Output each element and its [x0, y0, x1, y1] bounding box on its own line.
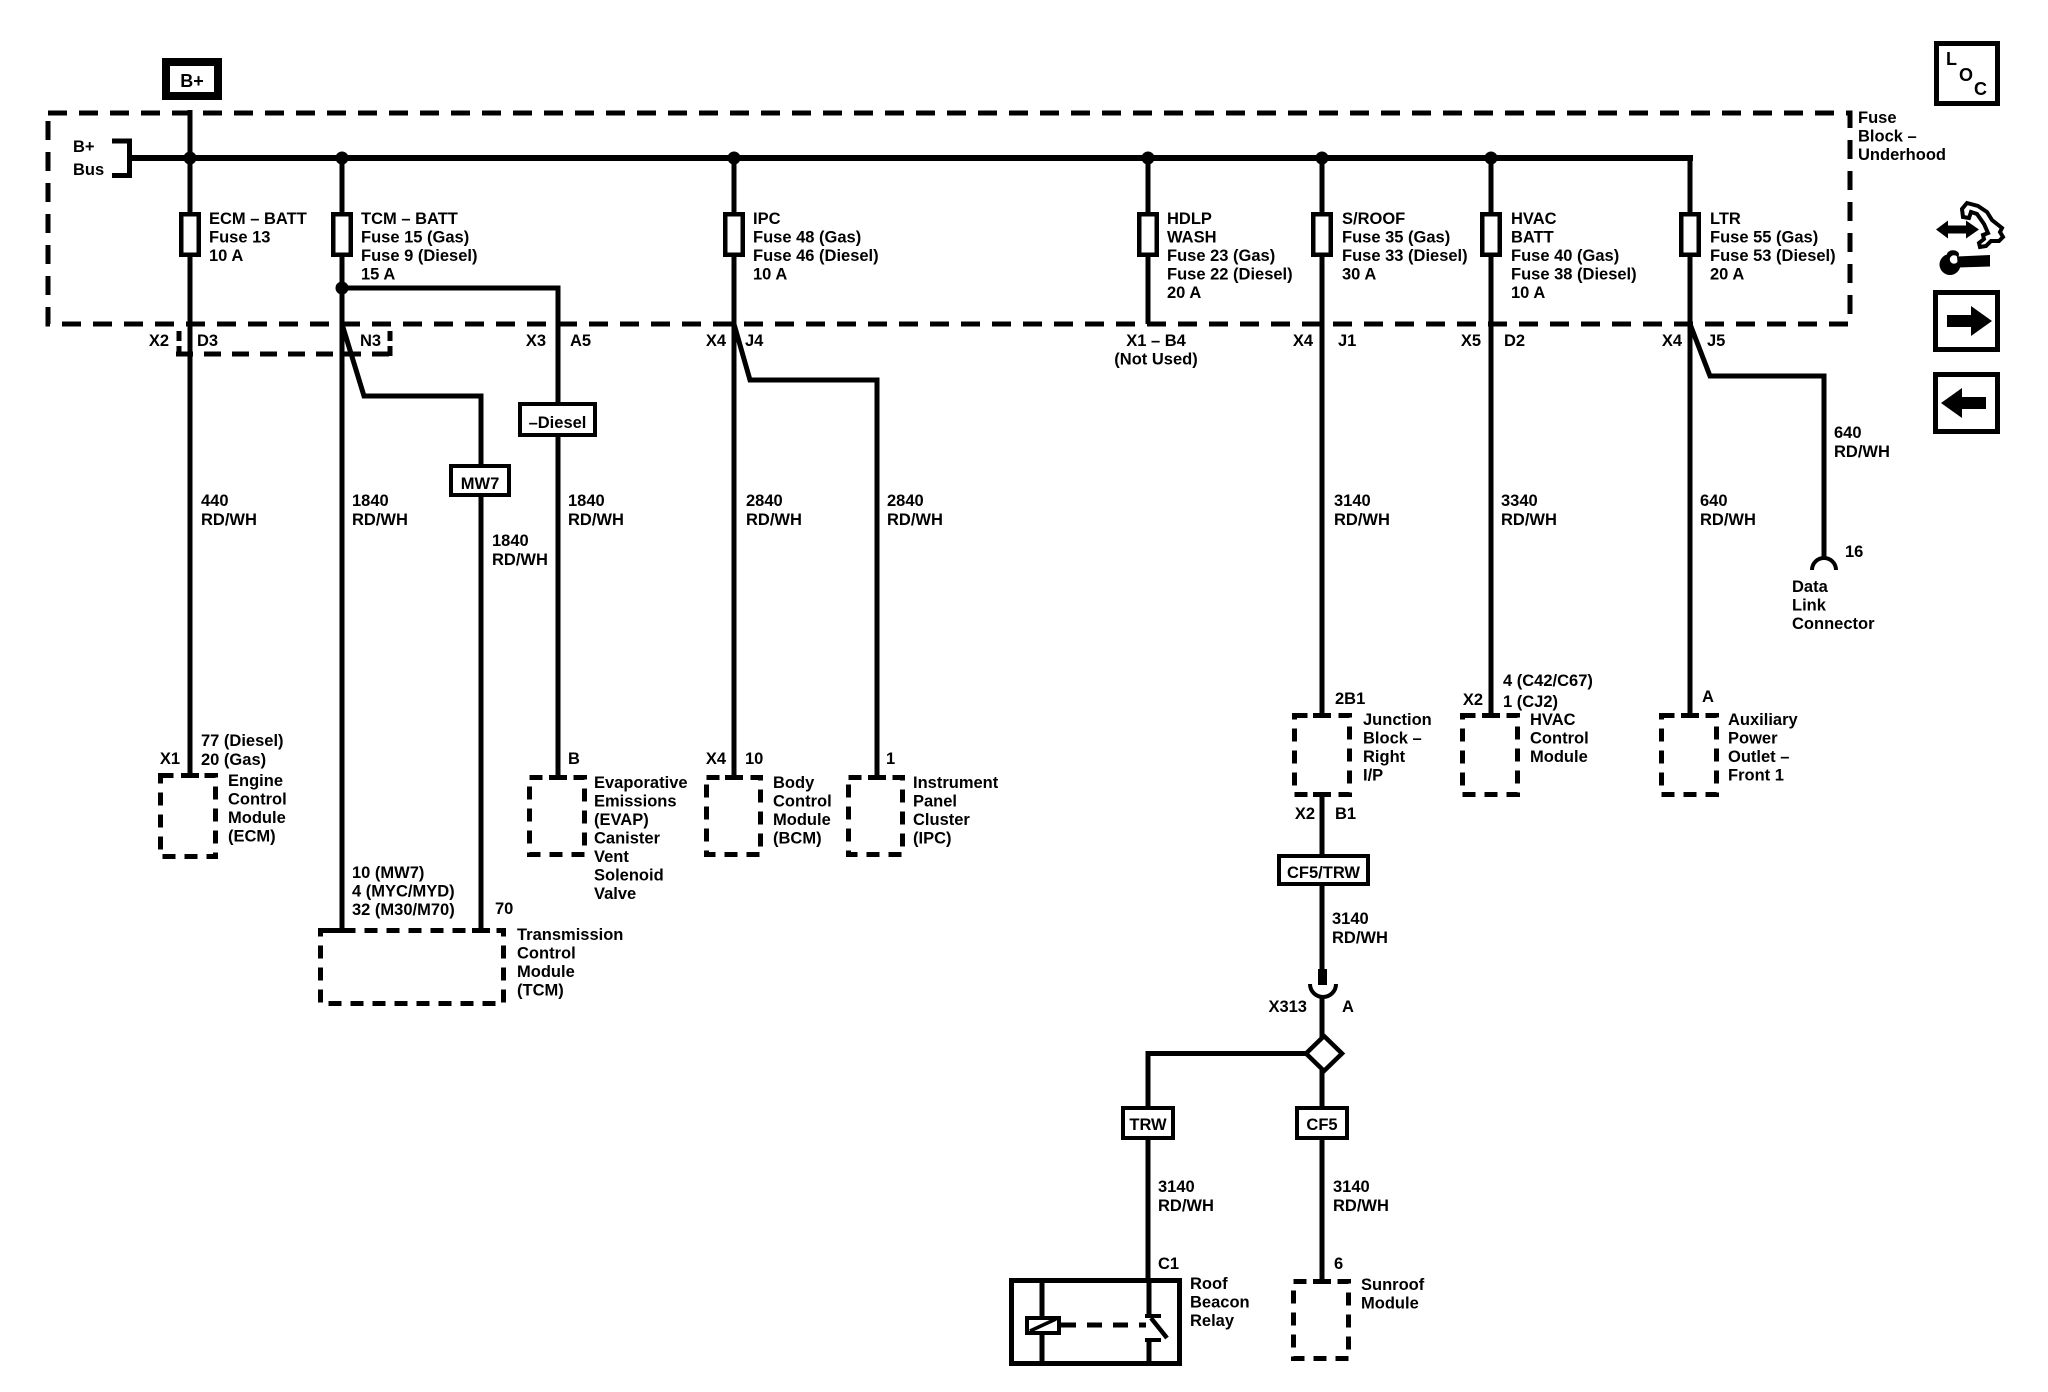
option box CF5/TRW	[1279, 856, 1368, 884]
junction node on bus at ECM feed	[184, 152, 197, 165]
B+ Bus bracket	[112, 141, 130, 176]
wire B+ feed drop	[188, 110, 193, 158]
wire X313 to splice	[1320, 997, 1325, 1038]
svg-text:(ECM): (ECM)	[228, 828, 276, 846]
wire label 640 RD/WH	[1700, 492, 1756, 529]
relay box Roof Beacon Relay	[1012, 1281, 1180, 1364]
svg-text:Evaporative: Evaporative	[594, 774, 688, 792]
svg-text:Outlet –: Outlet –	[1728, 748, 1789, 766]
svg-text:Fuse 40 (Gas): Fuse 40 (Gas)	[1511, 247, 1619, 265]
svg-text:RD/WH: RD/WH	[887, 511, 943, 529]
svg-text:Fuse 55 (Gas): Fuse 55 (Gas)	[1710, 229, 1818, 247]
svg-text:10 A: 10 A	[1511, 284, 1545, 302]
splice diamond	[1306, 1036, 1342, 1071]
relay mechanical link dashed	[1061, 1323, 1146, 1328]
svg-text:32 (M30/M70): 32 (M30/M70)	[352, 901, 455, 919]
wire label 3140 RD/WH trw	[1158, 1178, 1214, 1215]
svg-text:1840: 1840	[492, 532, 529, 550]
nav box arrow right	[1936, 293, 1998, 350]
relay switch wire lower	[1147, 1340, 1152, 1364]
svg-text:16: 16	[1845, 543, 1863, 561]
fuse LTR Fuse 55/53 20A	[1681, 214, 1699, 255]
wire label 2840 RD/WH	[887, 492, 943, 529]
svg-text:CF5: CF5	[1306, 1116, 1337, 1134]
svg-text:Fuse 53 (Diesel): Fuse 53 (Diesel)	[1710, 247, 1836, 265]
svg-text:Emissions: Emissions	[594, 793, 677, 811]
svg-text:Fuse 13: Fuse 13	[209, 229, 270, 247]
svg-text:X3: X3	[526, 332, 546, 350]
svg-text:Fuse 46 (Diesel): Fuse 46 (Diesel)	[753, 247, 879, 265]
svg-text:B: B	[568, 750, 580, 768]
svg-text:Control: Control	[517, 945, 576, 963]
junction node on bus at S/ROOF feed	[1316, 152, 1329, 165]
svg-text:RD/WH: RD/WH	[1501, 511, 1557, 529]
fuse block underhood dashed border	[48, 113, 1850, 324]
svg-text:LTR: LTR	[1710, 210, 1741, 228]
svg-text:20 A: 20 A	[1710, 266, 1744, 284]
svg-text:B+: B+	[73, 138, 95, 156]
wire label 1840 RD/WH	[352, 492, 408, 529]
wire IPC feed 2840 RD/WH to BCM	[732, 158, 737, 778]
wire branch diagonal to IPC cluster	[734, 324, 877, 778]
label IPC	[913, 774, 999, 848]
svg-text:RD/WH: RD/WH	[746, 511, 802, 529]
svg-text:RD/WH: RD/WH	[1158, 1197, 1214, 1215]
svg-text:Block –: Block –	[1858, 128, 1917, 146]
svg-text:Link: Link	[1792, 597, 1827, 615]
svg-text:I/P: I/P	[1363, 767, 1383, 785]
label fuse HDLP WASH Fuse 23/22 20A	[1167, 210, 1293, 302]
wire label 440 RD/WH	[201, 492, 257, 529]
svg-text:RD/WH: RD/WH	[201, 511, 257, 529]
svg-text:Module: Module	[517, 963, 575, 981]
wire S/ROOF feed 3140 RD/WH	[1320, 158, 1325, 717]
pin labels TCM left	[352, 864, 455, 919]
svg-text:3140: 3140	[1158, 1178, 1195, 1196]
fuse S/ROOF Fuse 35/33 30A	[1313, 214, 1331, 255]
svg-text:L: L	[1946, 49, 1957, 69]
svg-text:Beacon: Beacon	[1190, 1294, 1250, 1312]
svg-text:HVAC: HVAC	[1511, 210, 1557, 228]
module box Sunroof Module	[1294, 1282, 1349, 1359]
svg-text:1 (CJ2): 1 (CJ2)	[1503, 693, 1558, 711]
relay coil diagonal	[1030, 1319, 1056, 1331]
wire TCM-BATT feed 1840 RD/WH	[340, 158, 345, 931]
svg-text:X2: X2	[149, 332, 169, 350]
svg-text:20 A: 20 A	[1167, 284, 1201, 302]
svg-text:X4: X4	[1662, 332, 1683, 350]
relay coil wire upper	[1040, 1280, 1045, 1318]
svg-text:1840: 1840	[568, 492, 605, 510]
svg-text:B1: B1	[1335, 805, 1356, 823]
wire branch diagonal to data link connector	[1690, 324, 1824, 559]
svg-text:WASH: WASH	[1167, 229, 1217, 247]
svg-text:2840: 2840	[746, 492, 783, 510]
wire branch to X3-A5 horizontal	[342, 286, 560, 291]
nav box arrow left	[1936, 375, 1998, 432]
label fuse IPC Fuse 48/46 10A	[753, 210, 879, 284]
svg-text:Fuse: Fuse	[1858, 109, 1897, 127]
svg-text:TCM – BATT: TCM – BATT	[361, 210, 458, 228]
svg-text:RD/WH: RD/WH	[1700, 511, 1756, 529]
svg-text:Fuse 48 (Gas): Fuse 48 (Gas)	[753, 229, 861, 247]
svg-text:X1: X1	[160, 750, 180, 768]
svg-text:D2: D2	[1504, 332, 1525, 350]
svg-text:4 (MYC/MYD): 4 (MYC/MYD)	[352, 883, 455, 901]
label Junction Block	[1363, 711, 1432, 785]
label Fuse Block - Underhood	[1858, 109, 1946, 164]
svg-text:TRW: TRW	[1129, 1116, 1167, 1134]
svg-text:X2: X2	[1295, 805, 1315, 823]
module box Instrument Panel Cluster (IPC)	[849, 778, 903, 855]
wire LTR feed 640 RD/WH	[1688, 155, 1693, 717]
svg-text:C: C	[1974, 79, 1987, 99]
option box MW7	[451, 466, 509, 495]
svg-text:Cluster: Cluster	[913, 811, 970, 829]
svg-text:(IPC): (IPC)	[913, 830, 952, 848]
arrow left glyph	[1941, 388, 1986, 418]
service icon double-headed arrow	[1936, 221, 1979, 239]
label fuse ECM-BATT Fuse 13 10A	[209, 210, 307, 265]
svg-text:Valve: Valve	[594, 885, 636, 903]
svg-text:X4: X4	[706, 750, 727, 768]
svg-text:Bus: Bus	[73, 161, 104, 179]
svg-text:Canister: Canister	[594, 830, 661, 848]
svg-text:RD/WH: RD/WH	[352, 511, 408, 529]
svg-text:30 A: 30 A	[1342, 266, 1376, 284]
svg-text:(TCM): (TCM)	[517, 982, 564, 1000]
svg-text:Front 1: Front 1	[1728, 767, 1784, 785]
wire HVAC BATT feed 3340 RD/WH	[1489, 158, 1494, 717]
option box CF5	[1297, 1108, 1347, 1138]
svg-text:440: 440	[201, 492, 229, 510]
junction node on bus at TCM feed	[336, 152, 349, 165]
svg-text:RD/WH: RD/WH	[492, 551, 548, 569]
option box -Diesel	[520, 404, 595, 435]
svg-text:Right: Right	[1363, 748, 1406, 766]
LOC letters	[1946, 49, 1987, 99]
wire label 3340 RD/WH	[1501, 492, 1557, 529]
battery positive terminal box B+	[166, 62, 218, 96]
svg-text:Data: Data	[1792, 578, 1829, 596]
svg-text:Fuse 33 (Diesel): Fuse 33 (Diesel)	[1342, 247, 1468, 265]
module box Junction Block - Right I/P	[1295, 716, 1350, 795]
label Aux Power Outlet	[1728, 711, 1799, 785]
svg-text:Panel: Panel	[913, 793, 957, 811]
pin label X1-B4 Not Used	[1114, 332, 1197, 369]
fuse TCM-BATT Fuse 15/9 15A	[333, 214, 351, 255]
svg-text:1: 1	[886, 750, 895, 768]
svg-text:A5: A5	[570, 332, 591, 350]
svg-text:20 (Gas): 20 (Gas)	[201, 751, 266, 769]
relay contact tick upper	[1145, 1314, 1161, 1318]
svg-text:10 (MW7): 10 (MW7)	[352, 864, 424, 882]
relay switch blade	[1151, 1318, 1167, 1338]
svg-text:J5: J5	[1707, 332, 1725, 350]
svg-text:10: 10	[745, 750, 763, 768]
wire label 640 RD/WH DLC branch	[1834, 424, 1890, 461]
relay contact tick lower	[1145, 1338, 1161, 1342]
svg-text:X5: X5	[1461, 332, 1481, 350]
svg-text:Body: Body	[773, 774, 815, 792]
arrow right glyph	[1947, 306, 1992, 336]
wire splice to TRW branch	[1146, 1051, 1308, 1056]
label Data Link Connector	[1792, 578, 1875, 633]
inline connector X313 male pin	[1318, 969, 1327, 985]
svg-text:3340: 3340	[1501, 492, 1538, 510]
svg-text:Auxiliary: Auxiliary	[1728, 711, 1799, 729]
label B+ Bus	[73, 138, 104, 179]
relay switch wire from C1	[1147, 1280, 1152, 1314]
svg-text:Module: Module	[1361, 1295, 1419, 1313]
label Roof Beacon Relay	[1190, 1275, 1250, 1330]
LOC legend box	[1937, 44, 1998, 104]
svg-text:Relay: Relay	[1190, 1312, 1235, 1330]
relay coil element	[1027, 1318, 1059, 1333]
wire HDLP WASH feed (not used)	[1146, 158, 1151, 324]
svg-text:6: 6	[1334, 1255, 1343, 1273]
fuse HDLP WASH Fuse 23/22 20A	[1139, 214, 1157, 255]
svg-text:RD/WH: RD/WH	[568, 511, 624, 529]
svg-text:HVAC: HVAC	[1530, 711, 1576, 729]
wire label 3140 RD/WH jb	[1332, 910, 1388, 947]
svg-text:B+: B+	[180, 71, 204, 91]
svg-text:15 A: 15 A	[361, 266, 395, 284]
wire 3140 RD/WH to X313	[1320, 886, 1325, 970]
svg-text:ECM – BATT: ECM – BATT	[209, 210, 307, 228]
pin label 77 Diesel / 20 Gas	[201, 732, 284, 769]
svg-text:Control: Control	[1530, 730, 1589, 748]
svg-text:Sunroof: Sunroof	[1361, 1276, 1425, 1294]
wire label 1840 RD/WH	[568, 492, 624, 529]
svg-text:10 A: 10 A	[209, 247, 243, 265]
svg-text:3140: 3140	[1332, 910, 1369, 928]
svg-text:Engine: Engine	[228, 772, 283, 790]
svg-text:RD/WH: RD/WH	[1834, 443, 1890, 461]
svg-text:D3: D3	[197, 332, 218, 350]
svg-text:O: O	[1959, 65, 1973, 85]
relay coil wire lower	[1040, 1333, 1045, 1364]
label fuse S/ROOF Fuse 35/33 30A	[1342, 210, 1468, 284]
svg-text:Power: Power	[1728, 730, 1778, 748]
module box HVAC Control Module	[1463, 716, 1518, 795]
module box Transmission Control Module (TCM)	[321, 931, 504, 1004]
service icon wrench	[1940, 250, 1991, 275]
connector sub-box X2 D3..N3 dashed	[176, 331, 393, 356]
label HVAC Control Module	[1530, 711, 1589, 766]
svg-text:2840: 2840	[887, 492, 924, 510]
svg-text:2B1: 2B1	[1335, 690, 1365, 708]
svg-text:Connector: Connector	[1792, 615, 1875, 633]
module box Engine Control Module (ECM)	[161, 776, 216, 857]
junction node on bus at IPC feed	[728, 152, 741, 165]
svg-text:3140: 3140	[1333, 1178, 1370, 1196]
svg-text:Instrument: Instrument	[913, 774, 999, 792]
svg-text:J1: J1	[1338, 332, 1356, 350]
svg-text:–Diesel: –Diesel	[529, 414, 587, 432]
data link connector half-circle symbol	[1812, 558, 1836, 570]
svg-text:Control: Control	[228, 791, 287, 809]
svg-text:Block –: Block –	[1363, 730, 1422, 748]
svg-text:X4: X4	[1293, 332, 1314, 350]
svg-text:1840: 1840	[352, 492, 389, 510]
svg-text:IPC: IPC	[753, 210, 781, 228]
svg-text:BATT: BATT	[1511, 229, 1554, 247]
wire branch diagonal TCM pin 70 via MW7	[342, 324, 481, 931]
svg-text:HDLP: HDLP	[1167, 210, 1212, 228]
junction node on bus at HDLP feed	[1142, 152, 1155, 165]
wire EVAP feed 1840 RD/WH	[556, 286, 561, 779]
svg-text:77 (Diesel): 77 (Diesel)	[201, 732, 284, 750]
wire splice down to CF5 box	[1320, 1070, 1325, 1109]
svg-text:70: 70	[495, 900, 513, 918]
svg-text:RD/WH: RD/WH	[1333, 1197, 1389, 1215]
svg-text:(EVAP): (EVAP)	[594, 811, 649, 829]
svg-text:(BCM): (BCM)	[773, 830, 822, 848]
svg-text:Solenoid: Solenoid	[594, 867, 664, 885]
label TCM	[517, 926, 623, 1000]
module box EVAP canister vent solenoid valve	[530, 778, 585, 855]
fuse IPC Fuse 48/46 10A	[725, 214, 743, 255]
module box Body Control Module (BCM)	[707, 778, 761, 855]
svg-text:640: 640	[1700, 492, 1728, 510]
svg-text:MW7: MW7	[461, 475, 500, 493]
svg-text:Vent: Vent	[594, 848, 629, 866]
svg-text:Fuse 23 (Gas): Fuse 23 (Gas)	[1167, 247, 1275, 265]
junction node TCM/EVAP split	[336, 282, 349, 295]
service icon outline arrow shape	[1962, 203, 2003, 247]
label EVAP valve	[594, 774, 688, 903]
svg-text:640: 640	[1834, 424, 1862, 442]
label fuse LTR Fuse 55/53 20A	[1710, 210, 1836, 284]
svg-text:Roof: Roof	[1190, 1275, 1228, 1293]
svg-text:A: A	[1342, 998, 1354, 1016]
wire JB to CF5/TRW	[1320, 797, 1325, 857]
svg-text:4 (C42/C67): 4 (C42/C67)	[1503, 672, 1593, 690]
svg-text:C1: C1	[1158, 1255, 1179, 1273]
svg-text:X2: X2	[1463, 691, 1483, 709]
svg-text:Fuse 38 (Diesel): Fuse 38 (Diesel)	[1511, 266, 1637, 284]
wire 3140 RD/WH to sunroof module	[1320, 1140, 1325, 1282]
label fuse TCM-BATT Fuse 15/9 15A	[361, 210, 477, 284]
fuse HVAC BATT Fuse 40/38 10A	[1482, 214, 1500, 255]
inline connector X313 female cup	[1310, 984, 1336, 997]
svg-text:S/ROOF: S/ROOF	[1342, 210, 1405, 228]
label fuse HVAC BATT Fuse 40/38 10A	[1511, 210, 1637, 302]
svg-text:Underhood: Underhood	[1858, 146, 1946, 164]
wire label 3140 RD/WH	[1334, 492, 1390, 529]
svg-text:RD/WH: RD/WH	[1334, 511, 1390, 529]
junction node on bus at HVAC feed	[1485, 152, 1498, 165]
wire 3140 RD/WH to roof beacon relay	[1146, 1140, 1151, 1281]
wire label 2840 RD/WH	[746, 492, 802, 529]
svg-text:X1 – B4: X1 – B4	[1126, 332, 1186, 350]
svg-text:Fuse 15 (Gas): Fuse 15 (Gas)	[361, 229, 469, 247]
svg-text:Junction: Junction	[1363, 711, 1432, 729]
svg-text:Module: Module	[773, 811, 831, 829]
svg-text:10 A: 10 A	[753, 266, 787, 284]
label BCM	[773, 774, 832, 848]
svg-text:Module: Module	[1530, 748, 1588, 766]
svg-text:(Not Used): (Not Used)	[1114, 351, 1197, 369]
pin labels HVAC module	[1503, 672, 1593, 711]
fuse ECM-BATT Fuse 13 10A	[181, 214, 199, 255]
svg-text:Fuse 22 (Diesel): Fuse 22 (Diesel)	[1167, 266, 1293, 284]
option box TRW	[1123, 1108, 1173, 1138]
svg-text:Control: Control	[773, 793, 832, 811]
svg-text:X4: X4	[706, 332, 727, 350]
svg-text:X313: X313	[1268, 998, 1307, 1016]
wire ECM-BATT feed 440 RD/WH	[188, 158, 193, 776]
svg-text:J4: J4	[745, 332, 764, 350]
svg-text:RD/WH: RD/WH	[1332, 929, 1388, 947]
wire down to TRW box	[1146, 1054, 1151, 1110]
svg-text:3140: 3140	[1334, 492, 1371, 510]
svg-text:Fuse 35 (Gas): Fuse 35 (Gas)	[1342, 229, 1450, 247]
wire label 3140 RD/WH cf5	[1333, 1178, 1389, 1215]
svg-text:Transmission: Transmission	[517, 926, 623, 944]
wire label 1840 RD/WH below MW7	[492, 532, 548, 569]
label ECM	[228, 772, 287, 846]
svg-text:N3: N3	[360, 332, 381, 350]
wire B+ bus bar horizontal	[130, 155, 1693, 161]
svg-text:Fuse 9 (Diesel): Fuse 9 (Diesel)	[361, 247, 477, 265]
svg-text:CF5/TRW: CF5/TRW	[1287, 864, 1360, 882]
label Sunroof Module	[1361, 1276, 1425, 1313]
svg-text:Module: Module	[228, 809, 286, 827]
svg-text:A: A	[1702, 688, 1714, 706]
module box Auxiliary Power Outlet – Front 1	[1662, 716, 1717, 795]
